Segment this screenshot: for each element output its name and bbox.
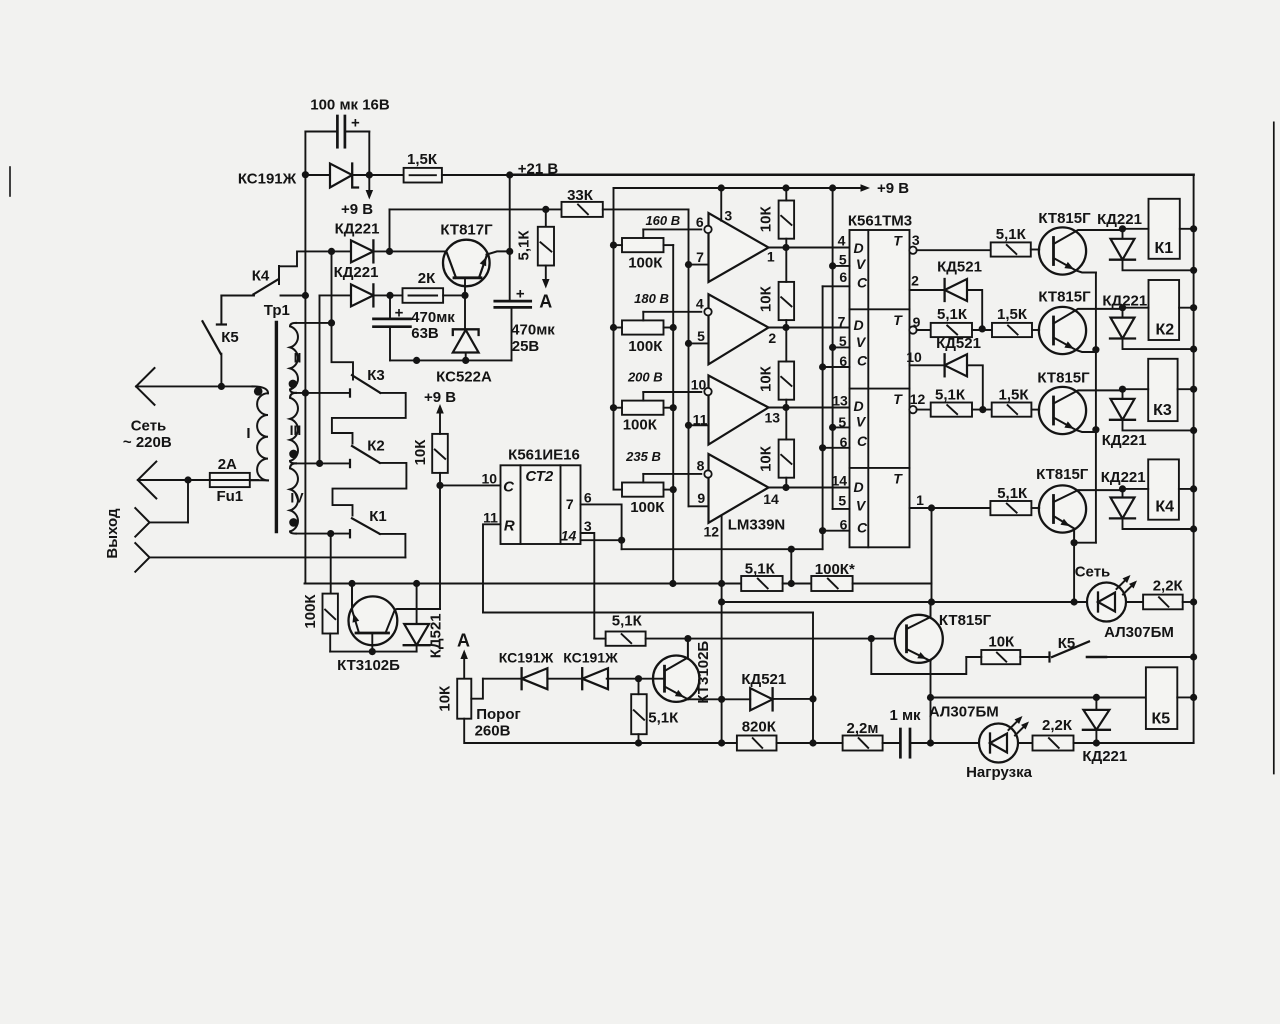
svg-text:3: 3	[912, 232, 920, 248]
svg-text:КС191Ж: КС191Ж	[238, 170, 297, 187]
svg-text:КТ815Г: КТ815Г	[1036, 466, 1089, 483]
svg-text:4: 4	[838, 232, 846, 248]
svg-text:D: D	[853, 240, 863, 256]
svg-text:1,5К: 1,5К	[997, 306, 1028, 323]
svg-text:12: 12	[704, 523, 720, 539]
svg-text:1,5К: 1,5К	[407, 151, 438, 168]
svg-text:33К: 33К	[567, 187, 594, 204]
svg-text:5,1К: 5,1К	[516, 230, 533, 261]
svg-text:3: 3	[724, 207, 732, 223]
svg-text:КС191Ж: КС191Ж	[499, 649, 554, 665]
svg-text:КД521: КД521	[741, 671, 786, 688]
svg-text:260В: 260В	[475, 723, 511, 740]
svg-text:Выход: Выход	[104, 508, 121, 559]
svg-text:2А: 2А	[218, 456, 237, 473]
svg-text:Сеть: Сеть	[131, 417, 167, 434]
svg-text:5,1К: 5,1К	[997, 485, 1028, 502]
svg-text:+: +	[351, 114, 360, 131]
svg-text:К1: К1	[1154, 240, 1173, 257]
svg-text:АЛ307БМ: АЛ307БМ	[1104, 624, 1174, 641]
svg-text:5,1К: 5,1К	[648, 710, 679, 727]
svg-text:К561ИЕ16: К561ИЕ16	[508, 446, 580, 463]
svg-text:К2: К2	[367, 437, 385, 454]
svg-text:КТ3102Б: КТ3102Б	[337, 657, 400, 674]
svg-text:КД221: КД221	[1101, 469, 1146, 486]
svg-text:14: 14	[561, 527, 577, 543]
svg-text:II: II	[294, 349, 302, 365]
svg-text:13: 13	[765, 409, 781, 425]
svg-text:Нагрузка: Нагрузка	[966, 764, 1032, 781]
svg-text:25В: 25В	[512, 338, 540, 355]
svg-text:5,1К: 5,1К	[937, 306, 968, 323]
svg-text:10: 10	[691, 376, 707, 392]
svg-text:10К: 10К	[758, 206, 775, 233]
svg-text:СТ2: СТ2	[525, 468, 553, 485]
svg-text:470мк: 470мк	[511, 321, 555, 338]
svg-text:100 мк 16В: 100 мк 16В	[310, 96, 390, 113]
svg-text:9: 9	[697, 490, 705, 506]
svg-text:7: 7	[566, 496, 574, 512]
svg-text:+: +	[395, 304, 404, 321]
svg-text:10К: 10К	[988, 634, 1015, 651]
svg-text:100К: 100К	[628, 254, 663, 271]
svg-text:100К*: 100К*	[815, 561, 855, 578]
svg-text:К3: К3	[1153, 402, 1172, 419]
svg-text:10К: 10К	[412, 439, 429, 466]
svg-text:I: I	[246, 425, 250, 442]
svg-text:14: 14	[763, 491, 779, 507]
svg-text:C: C	[857, 433, 868, 449]
svg-text:200 В: 200 В	[627, 370, 663, 385]
svg-text:R: R	[504, 518, 515, 535]
svg-text:А: А	[457, 630, 470, 650]
svg-text:2,2К: 2,2К	[1153, 577, 1184, 594]
svg-text:К2: К2	[1155, 321, 1174, 338]
svg-text:100К: 100К	[623, 416, 658, 433]
svg-text:100К: 100К	[302, 594, 319, 629]
svg-text:Порог: Порог	[476, 706, 521, 723]
svg-text:5,1К: 5,1К	[996, 226, 1027, 243]
svg-text:LM339N: LM339N	[728, 516, 786, 533]
svg-text:10К: 10К	[758, 445, 775, 472]
svg-text:8: 8	[697, 457, 705, 473]
svg-text:12: 12	[910, 391, 926, 407]
svg-text:2: 2	[911, 272, 919, 288]
svg-text:КТ817Г: КТ817Г	[440, 221, 493, 238]
svg-text:+21 В: +21 В	[518, 160, 559, 177]
svg-text:К4: К4	[252, 267, 270, 284]
svg-text:КД221: КД221	[1102, 292, 1147, 309]
svg-text:10К: 10К	[758, 285, 775, 312]
svg-text:5,1К: 5,1К	[745, 560, 776, 577]
svg-text:2: 2	[768, 330, 776, 346]
svg-text:К1: К1	[369, 508, 387, 525]
svg-text:К5: К5	[221, 329, 239, 346]
svg-text:+9 В: +9 В	[341, 201, 373, 218]
svg-text:+9 В: +9 В	[877, 180, 909, 197]
svg-text:13: 13	[832, 392, 848, 408]
svg-text:160 В: 160 В	[645, 213, 680, 228]
svg-text:Fu1: Fu1	[216, 488, 243, 505]
svg-text:6: 6	[584, 489, 592, 505]
svg-text:1,5К: 1,5К	[998, 386, 1029, 403]
svg-text:11: 11	[693, 411, 708, 427]
svg-text:4: 4	[696, 295, 704, 311]
svg-text:А: А	[539, 291, 552, 311]
svg-text:III: III	[290, 422, 302, 438]
svg-text:IV: IV	[290, 489, 304, 505]
svg-text:КД221: КД221	[1082, 748, 1127, 765]
svg-text:6: 6	[839, 269, 847, 285]
svg-text:5: 5	[697, 328, 705, 344]
svg-text:КД221: КД221	[334, 264, 379, 281]
svg-text:5: 5	[838, 492, 846, 508]
svg-text:КТ3102Б: КТ3102Б	[695, 641, 712, 704]
svg-text:К3: К3	[367, 367, 385, 384]
svg-text:КС191Ж: КС191Ж	[563, 649, 618, 665]
svg-text:235 В: 235 В	[625, 449, 661, 464]
svg-text:К561ТМ3: К561ТМ3	[848, 212, 912, 229]
svg-text:C: C	[857, 274, 868, 290]
svg-text:10: 10	[906, 349, 922, 365]
svg-text:D: D	[853, 317, 863, 333]
svg-text:КС522А: КС522А	[436, 368, 492, 385]
svg-text:820К: 820К	[742, 719, 777, 736]
svg-text:2К: 2К	[418, 270, 436, 287]
svg-text:+: +	[516, 285, 525, 302]
svg-text:К5: К5	[1151, 710, 1170, 727]
svg-text:C: C	[857, 520, 868, 536]
svg-text:3: 3	[584, 518, 592, 534]
svg-text:К4: К4	[1155, 498, 1174, 515]
svg-text:КД221: КД221	[1097, 211, 1142, 228]
svg-text:7: 7	[696, 249, 704, 265]
svg-text:5,1К: 5,1К	[612, 613, 643, 630]
svg-text:180 В: 180 В	[634, 291, 669, 306]
svg-text:100К: 100К	[630, 499, 665, 516]
svg-text:АЛ307БМ: АЛ307БМ	[929, 704, 999, 721]
svg-text:Т: Т	[893, 232, 903, 248]
svg-text:C: C	[857, 352, 868, 368]
svg-text:~ 220В: ~ 220В	[123, 434, 172, 451]
svg-text:470мк: 470мк	[411, 309, 455, 326]
svg-text:+9 В: +9 В	[424, 389, 456, 406]
svg-text:КТ815Г: КТ815Г	[1037, 369, 1090, 386]
svg-text:Т: Т	[893, 470, 903, 486]
svg-text:КД221: КД221	[335, 220, 380, 237]
svg-text:D: D	[853, 398, 863, 414]
svg-text:Сеть: Сеть	[1075, 564, 1111, 581]
svg-text:1: 1	[916, 492, 924, 508]
svg-text:14: 14	[832, 473, 848, 489]
svg-text:1: 1	[767, 248, 775, 264]
svg-text:10: 10	[482, 470, 498, 486]
svg-text:КТ815Г: КТ815Г	[1038, 210, 1091, 227]
svg-text:КД221: КД221	[1102, 432, 1147, 449]
svg-text:10К: 10К	[436, 685, 453, 712]
svg-text:КД521: КД521	[937, 259, 982, 276]
svg-text:2,2К: 2,2К	[1042, 717, 1073, 734]
svg-text:C: C	[503, 479, 515, 496]
svg-text:1 мк: 1 мк	[889, 707, 921, 724]
svg-text:63В: 63В	[411, 325, 439, 342]
svg-text:11: 11	[483, 509, 498, 525]
svg-text:Т: Т	[893, 391, 903, 407]
svg-text:7: 7	[838, 313, 846, 329]
svg-text:D: D	[853, 479, 863, 495]
svg-text:Т: Т	[893, 312, 903, 328]
svg-text:КТ815Г: КТ815Г	[939, 612, 992, 629]
svg-text:КТ815Г: КТ815Г	[1038, 289, 1091, 306]
svg-text:100К: 100К	[628, 338, 663, 355]
svg-text:КД521: КД521	[428, 613, 445, 658]
svg-text:К5: К5	[1058, 635, 1076, 652]
svg-text:10К: 10К	[758, 365, 775, 392]
svg-text:Тр1: Тр1	[264, 302, 290, 319]
svg-text:5,1К: 5,1К	[935, 387, 966, 404]
svg-text:6: 6	[696, 214, 704, 230]
svg-text:2,2м: 2,2м	[847, 720, 879, 737]
